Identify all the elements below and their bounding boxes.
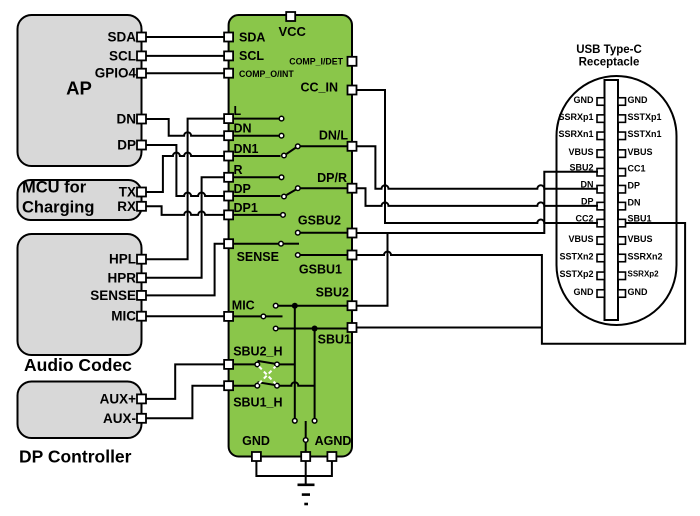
- pin U1.GSBU2: [348, 229, 357, 238]
- svg-text:SENSE: SENSE: [90, 288, 136, 303]
- pin U1.DN/L: [348, 142, 357, 151]
- block Audio Codec: [18, 234, 142, 375]
- switch SW5 contact a: [255, 362, 260, 367]
- switch SW5 lever: [258, 361, 278, 364]
- wire SBU2 net vertical: [294, 306, 296, 418]
- svg-text:DN: DN: [628, 198, 641, 208]
- pin AP.SDA: [137, 33, 146, 42]
- block MCU for Charging: [18, 179, 142, 221]
- receptacle J1 outline: [557, 76, 677, 325]
- svg-text:AGND: AGND: [315, 434, 352, 448]
- svg-text:SBU2: SBU2: [316, 286, 349, 300]
- receptacle pin A-side row4 VBUS: [597, 150, 605, 158]
- junction SBU1 net: [312, 326, 318, 332]
- wire U1.SBU2 riser joining GSBU2 net: [357, 233, 388, 306]
- switch SW6 lever: [258, 382, 278, 385]
- svg-text:USB Type-C: USB Type-C: [576, 44, 642, 56]
- switch SW7 pole contact: [303, 438, 308, 443]
- switch SW4 throw contact SBU1: [273, 326, 278, 331]
- svg-text:CC1: CC1: [628, 164, 646, 174]
- switch SW5 contact b: [275, 362, 280, 367]
- svg-text:GPIO4: GPIO4: [95, 66, 137, 81]
- pin Audio.HPL: [137, 255, 146, 264]
- block DP Controller: [18, 382, 142, 467]
- pin U1.AGND: [327, 452, 336, 461]
- receptacle pin B-side row6 DP: [618, 185, 626, 193]
- svg-text:CC_IN: CC_IN: [300, 81, 338, 95]
- pin Audio.SENSE: [137, 291, 146, 300]
- wire AP.SDA to U1.SDA: [146, 36, 224, 38]
- wire AP.SCL to U1.SCL: [146, 55, 224, 57]
- svg-text:SBU2_H: SBU2_H: [233, 344, 282, 358]
- svg-text:GND: GND: [628, 95, 649, 105]
- svg-text:RX: RX: [117, 199, 136, 214]
- switch SW2 pole contact: [296, 186, 301, 191]
- switch SW6 contact b: [275, 383, 280, 388]
- receptacle pin A-side row6 DN: [597, 185, 605, 193]
- switch SW6 line SBU1_H: [229, 385, 255, 387]
- svg-text:R: R: [234, 163, 243, 177]
- pin MCU.RX: [137, 202, 146, 211]
- switch SW4 pole contact: [261, 314, 266, 319]
- pin U1.SBU2: [348, 301, 357, 310]
- switch SW1 throw contact DN: [279, 133, 284, 138]
- svg-text:SDA: SDA: [107, 30, 136, 45]
- wire Audio.HPL to U1.L: [146, 119, 224, 260]
- svg-text:GSBU2: GSBU2: [298, 214, 341, 228]
- svg-text:SSTXp1: SSTXp1: [628, 112, 662, 122]
- switch SW7 open lever: [305, 421, 307, 437]
- switch SW6 contact a: [255, 383, 260, 388]
- svg-text:SSTXn1: SSTXn1: [628, 129, 662, 139]
- receptacle pin A-side row11 SSTXp2: [597, 272, 605, 280]
- wire Audio.HPR to U1.R: [146, 177, 224, 277]
- svg-text:SCL: SCL: [109, 48, 136, 63]
- switch SW7 throw contact SBU2 net: [293, 419, 298, 424]
- receptacle pin B-side row12 GND: [618, 290, 626, 298]
- svg-text:SDA: SDA: [239, 31, 265, 45]
- wire U1.DN/L to receptacle DN (hops over CC_IN and SBU2 feed risers): [357, 146, 598, 189]
- switch SW5 line SBU2_H: [229, 363, 255, 365]
- wire U1.DP/R to receptacle DP (hops over CC_IN and SBU2 feed risers): [357, 188, 598, 206]
- svg-text:DN: DN: [234, 122, 252, 136]
- receptacle pin B-side row3 SSTXn1: [618, 132, 626, 140]
- receptacle pin B-side row9 VBUS: [618, 237, 626, 245]
- svg-text:HPL: HPL: [109, 252, 136, 267]
- switch SW1 pole contact: [296, 144, 301, 149]
- receptacle pin B-side row5 CC1: [618, 168, 626, 176]
- switch SW1 throw line DN: [229, 135, 279, 137]
- junction SBU2 net: [292, 303, 298, 309]
- pin U1.L: [224, 114, 233, 123]
- receptacle pin B-side row1 GND: [618, 98, 626, 106]
- switch SW7 pole wire to bottom pin: [305, 443, 307, 457]
- svg-text:DN/L: DN/L: [319, 129, 349, 143]
- wire AP.DP to U1.DP (hops over HPL and HPR risers): [146, 145, 224, 196]
- switch SW2 throw contact DP1: [281, 213, 286, 218]
- svg-text:COMP_O/INT: COMP_O/INT: [239, 69, 294, 79]
- pin U1.AGND-common: [301, 452, 310, 461]
- pin U1.DN1: [224, 152, 233, 161]
- svg-text:DP1: DP1: [234, 201, 258, 215]
- pin U1.GSBU1: [348, 251, 357, 260]
- switch SW4 throw wire SBU1: [278, 328, 347, 330]
- receptacle pin B-side row7 DN: [618, 202, 626, 210]
- cross-coupling dashed X: [259, 367, 276, 384]
- switch SW1 lever DN1-to-pole: [287, 148, 297, 154]
- switch SW1 throw contact DN1: [282, 153, 287, 158]
- pin MCU.TX: [137, 188, 146, 197]
- wire U1.CC_IN to receptacle CC2 (hop over SBU2 feed riser): [357, 90, 598, 223]
- wire MCU.TX to U1.DN1 (hops over AP-DP and HPL risers): [146, 153, 224, 193]
- svg-text:MIC: MIC: [232, 299, 255, 313]
- pin AP.DN: [137, 115, 146, 124]
- svg-text:DP: DP: [117, 138, 136, 153]
- pin U1.GND: [252, 452, 261, 461]
- pin AP.DP: [137, 141, 146, 150]
- svg-text:DN: DN: [117, 112, 137, 127]
- switch SW2 throw line DP: [229, 195, 281, 197]
- receptacle pin A-side row5 SBU2: [597, 168, 605, 176]
- pin U1.SBU1_H: [224, 381, 233, 390]
- svg-text:AP: AP: [66, 78, 92, 99]
- analog switch IC U1 body: [229, 15, 352, 457]
- svg-text:AUX+: AUX+: [100, 391, 137, 406]
- wire SBU1 net vertical: [314, 329, 316, 419]
- pin U1.VCC: [286, 12, 295, 21]
- svg-text:GND: GND: [242, 434, 270, 448]
- svg-text:HPR: HPR: [107, 270, 136, 285]
- switch SW1 throw line L: [229, 118, 279, 120]
- switch SW4 throw wire SBU2: [278, 305, 347, 307]
- wire U1 switch-common pin to ground: [305, 459, 307, 484]
- svg-text:Charging: Charging: [22, 199, 94, 217]
- switch SW2 throw line R: [229, 176, 279, 178]
- switch SW6 wire to SBU1 net (hop over SBU2 net vertical): [280, 382, 315, 385]
- receptacle tongue: [605, 80, 619, 320]
- wire Audio.MIC to U1.MIC: [146, 315, 224, 317]
- svg-text:L: L: [234, 104, 242, 118]
- pin U1.SBU2_H: [224, 360, 233, 369]
- switch SW2 pole wire to DP/R pin: [300, 187, 348, 189]
- receptacle pin A-side row7 DP: [597, 202, 605, 210]
- svg-text:SBU1: SBU1: [628, 213, 652, 223]
- svg-text:GND: GND: [574, 95, 595, 105]
- svg-text:SSTXp2: SSTXp2: [559, 269, 593, 279]
- svg-text:SSRXn2: SSRXn2: [628, 251, 663, 261]
- pin AP.GPIO4: [137, 69, 146, 78]
- svg-text:COMP_I/DET: COMP_I/DET: [289, 57, 343, 67]
- pin U1.COMP_O/INT: [224, 69, 233, 78]
- switch SW4 throw contact SBU2: [273, 303, 278, 308]
- wire DPC.AUX- to U1.SBU1_H: [146, 386, 224, 419]
- svg-text:SSRXn1: SSRXn1: [558, 129, 593, 139]
- switch SW3 pole contact: [279, 241, 284, 246]
- svg-text:MIC: MIC: [111, 309, 136, 324]
- switch SW1 throw line DN1: [229, 155, 281, 157]
- wire Audio.SENSE to U1.SENSE: [146, 244, 224, 296]
- svg-text:DP: DP: [234, 182, 251, 196]
- switch SW3 open lever: [284, 243, 300, 245]
- receptacle pin B-side row11 SSRXp2: [618, 272, 626, 280]
- pin U1.COMP_I/DET: [348, 57, 357, 66]
- switch SW1 pole wire to DN/L pin: [300, 145, 348, 147]
- pin DPC.AUX+: [137, 394, 146, 403]
- switch SW4 pole line MIC: [229, 315, 261, 317]
- wire U1.GSBU1 to receptacle SBU1 (hop over SBU2 riser, routed around below): [357, 223, 685, 344]
- switch SW1 throw contact L: [279, 116, 284, 121]
- svg-text:GND: GND: [628, 287, 649, 297]
- wire AP.GPIO4 to U1.COMP_O/INT: [146, 72, 224, 74]
- svg-text:GSBU1: GSBU1: [299, 263, 342, 277]
- pin U1.R: [224, 173, 233, 182]
- wire U1.AGND to ground bus: [306, 459, 332, 476]
- svg-text:TX: TX: [119, 185, 136, 200]
- receptacle pin B-side row10 SSRXn2: [618, 254, 626, 262]
- svg-text:GND: GND: [574, 287, 595, 297]
- receptacle pin B-side row2 SSTXp1: [618, 115, 626, 123]
- pin Audio.HPR: [137, 273, 146, 282]
- pin U1.DP/R: [348, 184, 357, 193]
- switch SW2 throw contact R: [279, 175, 284, 180]
- svg-text:DP: DP: [628, 181, 641, 191]
- pin U1.DP: [224, 192, 233, 201]
- pin U1.MIC: [224, 312, 233, 321]
- receptacle pin A-side row10 SSTXn2: [597, 254, 605, 262]
- receptacle pin B-side row4 VBUS: [618, 150, 626, 158]
- svg-text:Receptacle: Receptacle: [579, 57, 640, 69]
- block AP: [18, 15, 142, 166]
- switch SW2 throw line DP1: [229, 214, 281, 216]
- svg-text:VBUS: VBUS: [568, 147, 593, 157]
- svg-text:AUX-: AUX-: [103, 411, 136, 426]
- pin Audio.MIC: [137, 312, 146, 321]
- pin U1.SENSE: [224, 239, 233, 248]
- svg-text:DP Controller: DP Controller: [19, 447, 132, 467]
- receptacle pin A-side row3 SSRXn1: [597, 132, 605, 140]
- svg-text:VBUS: VBUS: [628, 234, 653, 244]
- svg-text:SSRXp2: SSRXp2: [628, 270, 660, 279]
- switch SW3 throw wire GSBU1: [300, 254, 347, 256]
- svg-text:MCU for: MCU for: [22, 179, 87, 197]
- receptacle pin A-side row12 GND: [597, 290, 605, 298]
- pin U1.SBU1: [348, 323, 357, 332]
- wire U1.SBU1 joining GSBU1 net: [357, 327, 542, 329]
- pin DPC.AUX-: [137, 414, 146, 423]
- pin U1.SCL: [224, 51, 233, 60]
- wire AP.DN to U1.DN (hop over HPL riser): [146, 119, 224, 136]
- svg-text:Audio Codec: Audio Codec: [24, 355, 132, 375]
- receptacle pin A-side row1 GND: [597, 98, 605, 106]
- receptacle pin A-side row2 SSRXp1: [597, 115, 605, 123]
- svg-text:VBUS: VBUS: [568, 234, 593, 244]
- switch SW3 pole line SENSE: [229, 243, 279, 245]
- pin U1.DP1: [224, 210, 233, 219]
- switch SW2 throw contact DP: [282, 194, 287, 199]
- switch SW3 throw contact GSBU2: [296, 230, 301, 235]
- receptacle pin A-side row9 VBUS: [597, 237, 605, 245]
- switch SW7 throw contact SBU1 net: [312, 419, 317, 424]
- wire MCU.RX to U1.DP1 (hops over HPL and HPR risers): [146, 206, 224, 215]
- switch SW3 throw wire GSBU2: [300, 232, 347, 234]
- wire U1.GND to ground bus: [256, 459, 305, 476]
- switch SW4 open lever: [266, 315, 283, 317]
- svg-text:DP/R: DP/R: [317, 171, 347, 185]
- pin U1.DN: [224, 131, 233, 140]
- svg-text:SBU1: SBU1: [318, 333, 351, 347]
- switch SW3 throw contact GSBU1: [296, 253, 301, 258]
- receptacle pin A-side row8 CC2: [597, 219, 605, 227]
- svg-text:SCL: SCL: [239, 49, 264, 63]
- svg-text:SSRXp1: SSRXp1: [558, 112, 593, 122]
- pin U1.SDA: [224, 33, 233, 42]
- ground symbol: [298, 485, 315, 504]
- svg-text:VBUS: VBUS: [628, 147, 653, 157]
- receptacle pin B-side row8 SBU1: [618, 219, 626, 227]
- svg-text:DN1: DN1: [234, 142, 259, 156]
- svg-text:SENSE: SENSE: [237, 250, 279, 264]
- pin AP.SCL: [137, 51, 146, 60]
- svg-text:VCC: VCC: [279, 24, 307, 39]
- svg-text:CC2: CC2: [575, 213, 593, 223]
- svg-text:SSTXn2: SSTXn2: [559, 251, 593, 261]
- wire DPC.AUX+ to U1.SBU2_H: [146, 364, 224, 399]
- svg-text:SBU1_H: SBU1_H: [233, 396, 282, 410]
- pin U1.CC_IN: [348, 86, 357, 95]
- switch SW5 wire to SBU2 net: [280, 363, 295, 365]
- switch SW2 lever DP-to-pole: [287, 190, 297, 196]
- wire U1.GSBU2 to receptacle SBU2: [357, 172, 598, 233]
